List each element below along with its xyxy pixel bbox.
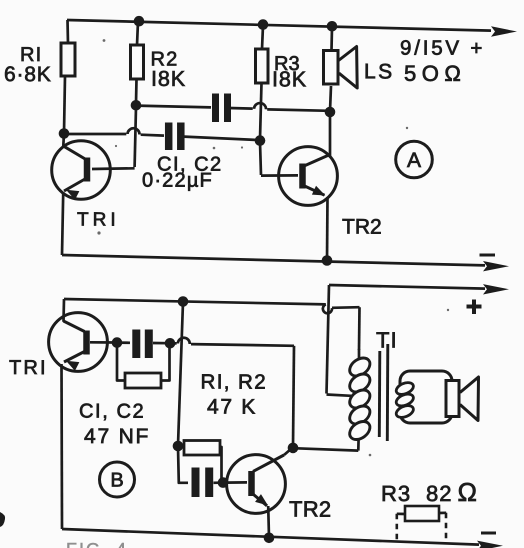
svg-text:TR2: TR2	[289, 497, 332, 522]
svg-text:B: B	[110, 469, 123, 491]
svg-text:47 NF: 47 NF	[84, 425, 150, 448]
svg-text:FIG. 4: FIG. 4	[66, 540, 128, 548]
svg-text:TRI: TRI	[77, 210, 120, 231]
svg-text:CI, C2: CI, C2	[79, 401, 145, 423]
svg-text:47 K: 47 K	[207, 396, 257, 419]
svg-text:Ω: Ω	[457, 477, 477, 507]
svg-text:0·22µF: 0·22µF	[142, 170, 213, 192]
svg-text:6·8K: 6·8K	[4, 63, 52, 86]
svg-text:82: 82	[426, 481, 453, 506]
svg-text:R3: R3	[381, 481, 411, 506]
svg-text:A: A	[407, 149, 421, 172]
svg-text:TRI: TRI	[9, 357, 48, 379]
svg-text:TR2: TR2	[342, 216, 382, 239]
svg-text:LS: LS	[364, 60, 395, 83]
svg-text:5OΩ: 5OΩ	[404, 61, 466, 86]
svg-text:I8K: I8K	[151, 67, 186, 91]
svg-text:I8K: I8K	[272, 67, 307, 91]
svg-text:TI: TI	[376, 328, 398, 353]
svg-text:9/I5V +: 9/I5V +	[400, 37, 485, 60]
svg-text:RI, R2: RI, R2	[200, 371, 267, 394]
